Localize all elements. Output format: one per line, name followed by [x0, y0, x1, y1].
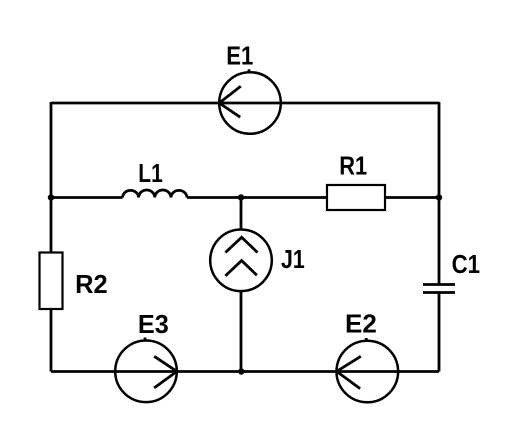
- resistor R2: [40, 253, 63, 310]
- node dot right middle: [436, 194, 442, 200]
- svg-text:J1: J1: [281, 245, 305, 275]
- svg-text:R2: R2: [75, 271, 108, 299]
- wire left vertical upper: [50, 102, 53, 253]
- svg-text:E2: E2: [345, 309, 377, 339]
- resistor R1: [327, 185, 385, 210]
- wire bottom horizontal: [51, 370, 439, 373]
- svg-text:C1: C1: [452, 250, 480, 279]
- svg-text:R1: R1: [339, 152, 367, 181]
- wire right vertical lower: [438, 293, 441, 372]
- inductor L1: [123, 190, 188, 198]
- node dot left middle: [48, 194, 54, 200]
- wire left vertical lower: [50, 309, 53, 372]
- current source J1: [210, 229, 272, 291]
- voltage source E2: [337, 338, 399, 402]
- svg-text:L1: L1: [138, 160, 162, 189]
- wire right vertical upper: [438, 102, 441, 285]
- wire middle horizontal L1 to R1: [187, 196, 327, 199]
- wire J1 branch lower: [240, 291, 243, 371]
- svg-text:E1: E1: [226, 42, 253, 71]
- wire middle horizontal right of R1: [385, 196, 439, 199]
- voltage source E1: [219, 69, 281, 133]
- wire top horizontal: [51, 102, 439, 105]
- node dot center middle: [238, 194, 244, 200]
- capacitor C1: [423, 285, 455, 293]
- voltage source E3: [115, 338, 177, 403]
- node dot bottom center: [238, 368, 244, 374]
- svg-text:E3: E3: [138, 311, 169, 339]
- wire J1 branch upper: [240, 198, 243, 230]
- wire middle horizontal left of L1: [51, 196, 123, 199]
